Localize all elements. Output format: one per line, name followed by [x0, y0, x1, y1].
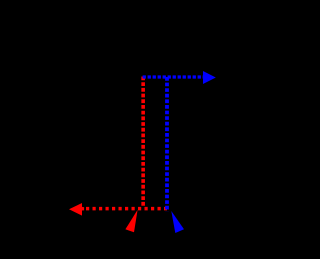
red dotted vertical component line	[141, 77, 145, 207]
red solid arrowhead triangle (vector tip, lower left)	[125, 210, 137, 233]
blue dotted vertical component line	[165, 77, 169, 212]
blue right arrowhead	[203, 71, 216, 84]
blue dotted horizontal component line	[143, 75, 203, 78]
red dotted horizontal component line	[80, 207, 168, 211]
blue solid arrowhead triangle (vector tip, lower right)	[171, 211, 184, 233]
red left arrowhead	[69, 203, 82, 216]
red dash notch at arrowhead back	[82, 207, 84, 210]
